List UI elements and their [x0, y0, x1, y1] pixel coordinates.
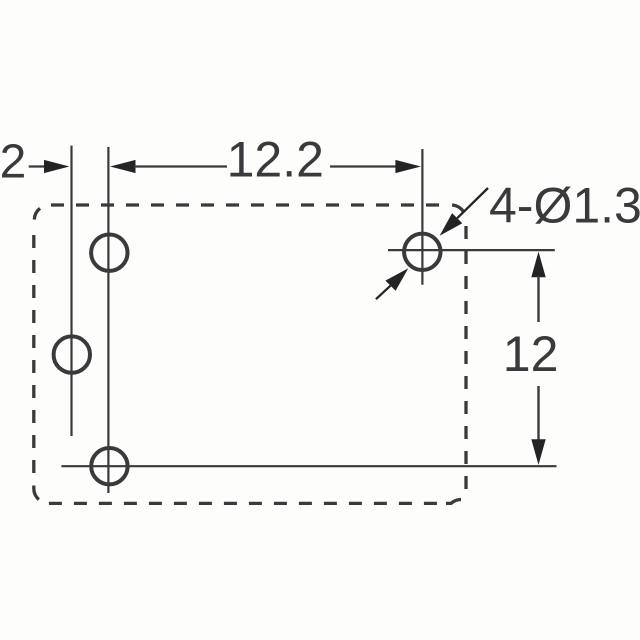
dimension 12, arrowhead pointing up [531, 252, 545, 278]
component outline, left edge [32, 235, 35, 473]
extension line, second column (vertical) [107, 147, 109, 493]
svg-text:2: 2 [0, 135, 26, 188]
hole circle, bottom [91, 448, 127, 484]
hole callout 4-Ø1.3, lower leader line [376, 286, 391, 300]
component outline, bottom edge [49, 502, 437, 505]
extension line, left column (vertical) [70, 146, 72, 436]
component outline, bottom-right corner arc [446, 500, 461, 504]
dimension 12.2, right line segment [330, 165, 397, 167]
component outline, top-right corner arc [452, 205, 464, 213]
hole callout 4-Ø1.3, upper arrowhead pointing down-left [440, 213, 463, 236]
dimension 12.2, arrowhead pointing right [395, 160, 421, 173]
svg-text:12: 12 [503, 326, 559, 382]
component outline, right edge [464, 226, 467, 489]
dimension 12.2, arrowhead pointing left [110, 160, 136, 173]
dimension 2, arrowhead pointing right [44, 160, 69, 173]
hole callout 4-Ø1.3, upper leader line [457, 188, 488, 218]
extension line, top-right hole (horizontal) [388, 249, 555, 251]
svg-text:4-Ø1.3: 4-Ø1.3 [489, 178, 640, 234]
hole circle, top-left [91, 235, 127, 271]
hole circle, top-right [404, 234, 440, 270]
extension line, bottom hole row (horizontal) [61, 465, 556, 467]
dimension 12, arrowhead pointing down [531, 439, 545, 465]
dimension 2, leader segment [29, 165, 46, 167]
component outline, bottom-left corner arc [34, 486, 39, 500]
hole circle, left-middle [54, 336, 90, 372]
dimension 12, lower line segment [537, 386, 539, 441]
hole callout 4-Ø1.3, lower arrowhead pointing up-right [385, 268, 408, 291]
component outline (dashed rounded rectangle), top edge [51, 203, 441, 206]
component outline, top-left corner arc [34, 208, 40, 219]
svg-text:12.2: 12.2 [227, 132, 324, 188]
extension line, top-right hole (vertical) [421, 149, 423, 285]
dimension 12.2, left line segment [134, 165, 227, 167]
dimension 12, upper line segment [537, 276, 539, 322]
